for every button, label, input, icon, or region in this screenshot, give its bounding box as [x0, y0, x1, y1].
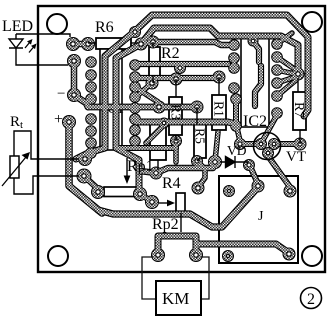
pad R3 bottom	[170, 135, 182, 147]
pad VD left	[208, 155, 222, 169]
wire/trace mid rail y107	[88, 104, 194, 111]
wire/trace IC2 col to VT rail	[237, 128, 240, 141]
diode VD	[220, 156, 248, 168]
pad IC1 pin R2	[129, 71, 141, 83]
wire/trace bottom trunk to J	[98, 187, 258, 227]
thermistor Rt wiring top	[14, 131, 79, 159]
pad R5 top hole	[195, 105, 199, 109]
pad J small b hole	[227, 255, 230, 258]
relay J body	[219, 176, 298, 263]
pad VD right	[243, 159, 255, 171]
pad IC2 pin L4	[228, 82, 240, 94]
pad R2 bottom	[146, 77, 159, 90]
pad R6 right hole	[139, 42, 143, 46]
pad IC2 pin L3	[228, 62, 240, 74]
svg-text:−: −	[57, 86, 65, 102]
pad Rp1 right	[133, 187, 147, 201]
pad VT rail left hole	[238, 142, 242, 146]
pad R2 bottom hole	[150, 81, 154, 85]
wire/trace IC2 inner b	[255, 66, 261, 106]
pad LED cathode hole	[72, 59, 76, 63]
wire/trace Rp2 net	[158, 236, 196, 252]
wire/trace fan to IC2 pin R2	[277, 57, 296, 70]
wire/trace left vertical	[71, 61, 78, 93]
pad R1 top	[213, 71, 226, 84]
figure number 2	[301, 288, 322, 309]
wire/trace mid rail y122	[136, 122, 236, 124]
pad J small b	[222, 250, 234, 262]
pad rail y64 mid	[174, 62, 186, 74]
wire/trace rail y42	[153, 42, 228, 45]
wire/trace mid y170	[140, 168, 213, 173]
pad LED anode	[66, 37, 80, 51]
pad trunk corner	[78, 152, 92, 166]
pad J contact hole	[287, 252, 291, 256]
wire/trace VT left rail	[240, 141, 259, 147]
svg-text:Rp2: Rp2	[152, 216, 179, 233]
pad R6 right	[135, 38, 148, 51]
svg-text:Rp1: Rp1	[127, 158, 154, 175]
pad R1 top hole	[217, 75, 221, 79]
transistor VT outline	[254, 133, 281, 160]
svg-text:VT: VT	[286, 149, 306, 165]
lead R2 bottom	[152, 76, 154, 83]
pad IC2 pin R6	[271, 107, 283, 119]
pad mid y170	[150, 167, 163, 180]
svg-text:R7: R7	[292, 102, 307, 118]
pad J diag hole	[256, 184, 260, 188]
pad Rt bottom hole	[82, 174, 86, 178]
pad IC1 pin R8	[129, 135, 141, 147]
pad R2 top hole	[151, 40, 155, 44]
pad Rp1 left hole	[96, 190, 100, 194]
pad R3 top hole	[174, 77, 178, 81]
pad R7 top	[292, 68, 305, 81]
pad IC1 pin R5	[129, 102, 141, 114]
pad R6 left hole	[86, 42, 90, 46]
pad IC1 pin R7	[129, 124, 141, 136]
pad IC2 pin R1	[271, 38, 283, 50]
pad R5 top	[191, 101, 204, 114]
pad left mid hole	[72, 93, 76, 97]
pad R6 left	[81, 37, 95, 51]
pad Rt bottom	[77, 169, 92, 184]
lead R3 bottom	[175, 135, 177, 141]
wire/trace IC2 pin to VT base	[263, 115, 277, 140]
pad R3 bottom hole	[174, 139, 178, 143]
pad IC2 pin L6	[230, 120, 242, 132]
pad IC1 pin R1	[129, 59, 141, 71]
pad IC1 pin L3	[85, 81, 97, 93]
svg-text:R2: R2	[161, 45, 180, 62]
thermistor Rt body	[10, 156, 19, 178]
wire/trace R5 net down	[199, 168, 205, 186]
pad IC1 pin R4	[129, 91, 141, 103]
pad trunk corner hole	[83, 157, 87, 161]
pad Rp2 wiper	[145, 195, 159, 209]
pad KM left	[151, 248, 165, 262]
svg-text:R6: R6	[95, 19, 114, 36]
pad IC1 pin L1	[85, 56, 97, 68]
svg-text:R1: R1	[212, 101, 227, 117]
IC2 body	[241, 35, 269, 127]
pad rail y64 mid hole	[178, 66, 182, 70]
lead R3 top	[175, 79, 177, 97]
lead R2 top	[152, 42, 154, 47]
wire/trace net B (Rp1-right / IC1 strip2 / top inner rail)	[116, 28, 298, 194]
copper traces (outline pass)	[62, 15, 308, 262]
pad J coil top hole	[288, 189, 292, 193]
lead R6 left	[88, 42, 96, 44]
wire KM right	[201, 257, 209, 299]
pad IC2 inner top hole	[251, 39, 255, 43]
lead R4 bottom	[157, 160, 159, 170]
mounting hole bottom-right	[302, 246, 322, 266]
lead Rp2 bottom	[180, 213, 182, 232]
wire/trace R5 bottom diag	[197, 161, 205, 169]
pad VT rail left	[234, 138, 246, 150]
pad KM left hole	[156, 253, 160, 257]
resistor R3	[169, 97, 182, 135]
pad IC1 pin R3	[129, 81, 141, 93]
IC1 body	[100, 49, 122, 150]
pad rail mid hole	[157, 105, 161, 109]
relay coil KM box	[156, 281, 201, 315]
pad IC2 pin L1	[228, 39, 240, 51]
trimmer Rp1 wiper arrow	[124, 158, 131, 184]
pad LED anode hole	[71, 42, 75, 46]
wire/trace diag through R4 box	[146, 126, 163, 143]
resistor R6	[96, 38, 131, 49]
pad R7 bottom	[294, 138, 307, 151]
pad Rp1 right hole	[138, 192, 142, 196]
svg-text:VD: VD	[227, 143, 247, 158]
pad R2 top	[147, 36, 160, 49]
pad left mid	[67, 88, 81, 102]
wire/trace J bottom	[196, 244, 289, 253]
pad KM right	[189, 248, 203, 262]
wire/trace pair link	[231, 58, 237, 68]
wire/trace fan to IC2 pin R4	[277, 77, 295, 83]
svg-text:J: J	[258, 209, 264, 224]
wire/trace VD to J diag	[250, 166, 258, 184]
svg-text:IC2: IC2	[243, 113, 267, 130]
lead R7 bottom	[299, 130, 301, 144]
mounting hole top-right	[302, 12, 322, 32]
pad IC2 pin R3	[271, 64, 283, 76]
pad J contact	[283, 248, 296, 261]
wire/trace fan to IC2 pin R5	[277, 80, 296, 96]
pad rail1 top	[129, 26, 141, 38]
wire/trace diag y87	[135, 87, 158, 107]
pad VT collector	[268, 138, 280, 150]
trimmer Rp2 body	[176, 193, 185, 213]
pad plus hole	[67, 120, 71, 124]
pad plus	[62, 115, 76, 129]
thermistor Rt arrow	[2, 152, 30, 186]
pad Rp2 wiper hole	[150, 200, 154, 204]
wire/trace R2 bottom to IC1 pin	[138, 83, 152, 95]
svg-text:2: 2	[307, 291, 315, 308]
pad J small a	[223, 185, 235, 197]
pad VT emitter hole	[266, 151, 270, 155]
lead R7 top	[297, 78, 299, 92]
mounting hole bottom-left	[48, 246, 68, 266]
pad IC2 pin R2	[271, 51, 283, 63]
resistor R4	[150, 121, 166, 160]
resistor R2	[149, 47, 160, 76]
wire/trace Rp1 to Rp2 pad	[140, 194, 151, 201]
copper traces (hatch pass)	[63, 15, 308, 261]
wire/trace rail y64	[135, 61, 228, 67]
pad IC1 pin L7	[85, 137, 97, 149]
lead R1 top	[218, 77, 220, 95]
pad VD right hole	[247, 163, 251, 167]
lead R5 top	[196, 107, 198, 124]
LED arrows	[25, 39, 37, 53]
svg-text:KM: KM	[162, 289, 189, 308]
wire/trace R1 bottom to VD pad	[215, 132, 218, 161]
pad y122 mid	[159, 118, 170, 129]
pad IC2 pin L5	[230, 93, 242, 105]
pad IC1 pin L5	[85, 113, 97, 125]
wire/trace R6 right to R2 top	[141, 42, 153, 44]
pad KM right hole	[194, 253, 198, 257]
pad IC1 pin L2	[85, 69, 97, 81]
resistor R5	[194, 124, 206, 158]
wire/trace IC2 left col link	[233, 99, 239, 126]
board outline	[38, 6, 325, 272]
wire KM left	[142, 257, 156, 299]
trimmer Rp1 body	[104, 187, 137, 197]
pad IC2 pin L2	[228, 52, 240, 64]
pad VT emitter	[262, 147, 274, 159]
pad J diag	[252, 180, 265, 193]
lead R5 bottom	[197, 158, 200, 161]
wire/trace left elbow to rail	[74, 95, 88, 107]
pad VT base	[255, 138, 267, 150]
svg-text:+: +	[54, 111, 63, 128]
wire/trace LED pads bar	[73, 41, 88, 48]
pad LED cathode	[67, 54, 81, 68]
pad R5 bottom hole	[195, 159, 199, 163]
trimmer Rp2 wiper arrow	[159, 200, 175, 207]
pad IC2 inner top	[248, 36, 259, 47]
resistor R1	[212, 95, 226, 130]
pad R7 top hole	[296, 72, 300, 76]
LED wiring	[9, 34, 70, 65]
wire/trace fan to IC2 pin R1	[277, 33, 292, 44]
thermistor Rt wiring bottom	[14, 176, 79, 194]
wire/trace left trunk band	[69, 124, 102, 213]
resistor R7	[293, 92, 306, 130]
wire/trace VT collector to R7	[276, 141, 298, 147]
svg-text:R5: R5	[193, 128, 208, 144]
pad IC1 pin L6	[85, 125, 97, 137]
mounting hole top-left	[47, 14, 67, 34]
pad y122 mid hole	[162, 121, 166, 125]
wire/trace fan to IC2 pin R3	[277, 70, 295, 74]
pad holes	[67, 30, 302, 258]
svg-text:R3: R3	[169, 104, 184, 120]
pad R3 top	[170, 73, 183, 86]
lead R6 right	[131, 42, 138, 44]
wire/trace net A (Rp1-left / IC1 strip / top outer rail)	[76, 15, 308, 159]
pad IC1 pin R6	[129, 113, 141, 125]
wire/trace IC2 inner a	[253, 41, 259, 62]
svg-text:R4: R4	[162, 175, 181, 192]
pad J coil top	[284, 185, 297, 198]
wire/trace VT emitter diag	[268, 156, 290, 187]
pad R5 net end	[192, 182, 205, 195]
pad mid y170 hole	[154, 171, 158, 175]
pad VT base hole	[259, 142, 263, 146]
pad J small a hole	[228, 190, 231, 193]
pad IC1 pin L4	[85, 93, 97, 105]
wire/trace rail y78	[135, 75, 215, 81]
wire/trace R3 bottom	[173, 141, 179, 162]
pad Rp1 left	[91, 185, 105, 199]
svg-text:LED: LED	[2, 18, 33, 35]
pad VT collector hole	[272, 142, 276, 146]
pad VD left hole	[213, 160, 217, 164]
wire/trace horiz y148	[118, 145, 176, 151]
pad R5 bottom	[191, 155, 203, 167]
pad IC2 pin R4	[271, 77, 283, 89]
pad rail mid	[153, 101, 166, 114]
pad IC2 pin R5	[271, 90, 283, 102]
pad rail1 top hole	[133, 30, 137, 34]
pad R7 bottom hole	[298, 142, 302, 146]
wire/trace Rt pad to Rp1 left	[83, 175, 98, 189]
pad R5 net end hole	[196, 186, 200, 190]
pad IC1 pin L8	[85, 147, 97, 159]
